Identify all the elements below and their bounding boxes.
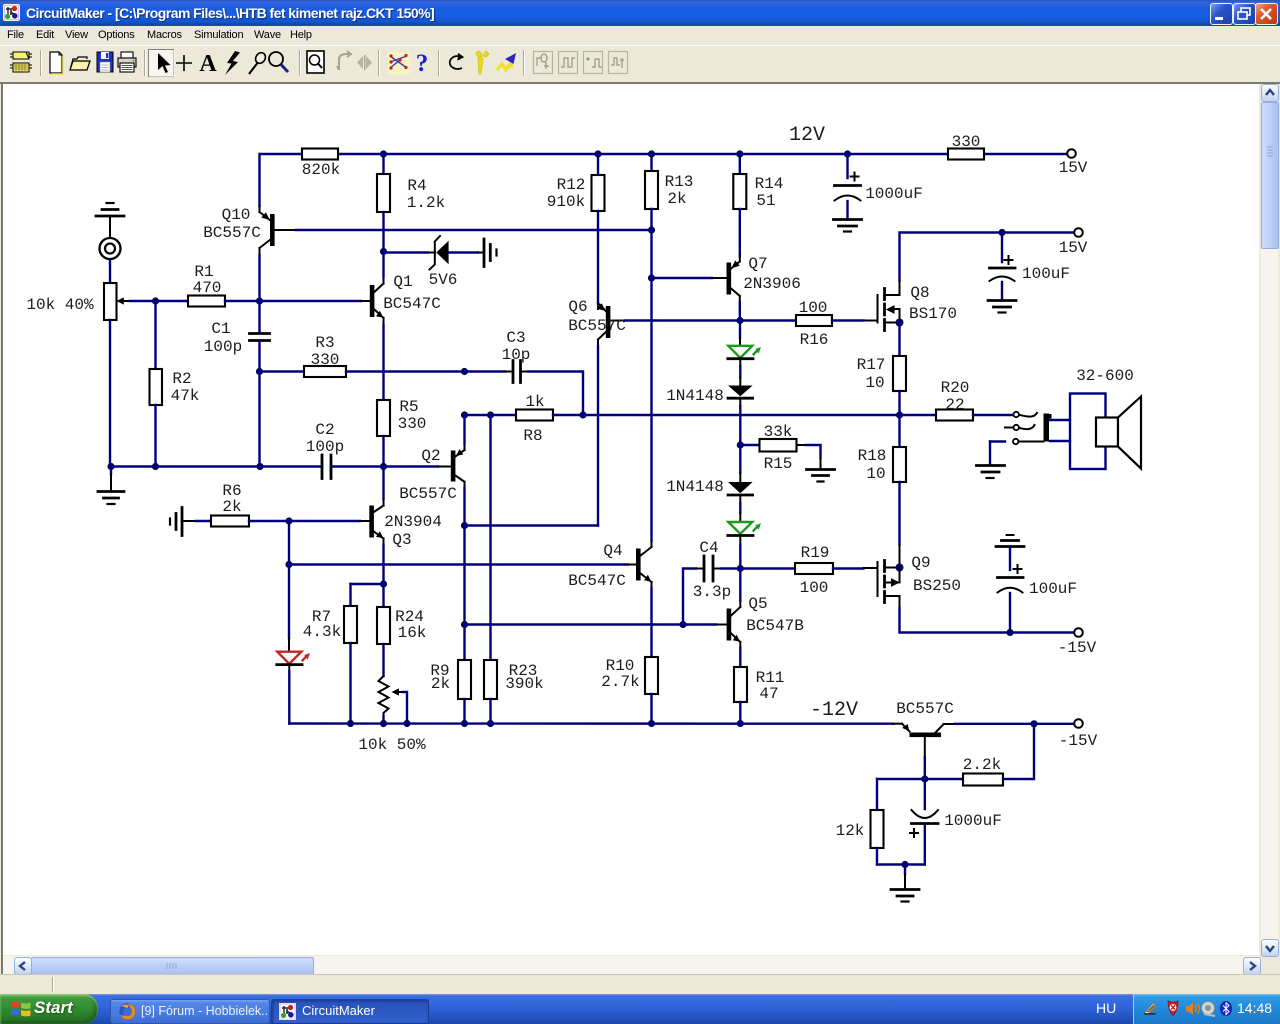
svg-text:R4: R4: [407, 177, 426, 195]
node Q3 emitter / R7 branch: [380, 580, 387, 587]
svg-text:R19: R19: [801, 544, 830, 562]
svg-text:R3: R3: [315, 334, 334, 352]
wrench yellow: [476, 51, 489, 74]
resistor R9 2k: [458, 660, 471, 699]
jack contacts: [990, 412, 1044, 464]
svg-text:10k 50%: 10k 50%: [358, 736, 426, 754]
svg-text:1k: 1k: [525, 393, 544, 411]
capacitor C1 100p: [204, 301, 270, 372]
firefox task button: [110, 999, 270, 1024]
resistor R16 100: [796, 315, 832, 326]
capacitor 1000uF top: [835, 154, 923, 219]
svg-text:Q10: Q10: [222, 206, 251, 224]
plug bar: [1044, 414, 1050, 442]
svg-text:Q2: Q2: [421, 447, 440, 465]
node R8 left / feedback: [461, 411, 468, 418]
svg-text:47: 47: [759, 685, 778, 703]
node top rail / C5: [844, 150, 851, 157]
svg-text:A: A: [199, 51, 217, 77]
mosfet Q9 BS250: [864, 545, 1075, 633]
ati icon: [1144, 1002, 1156, 1014]
transistor Q10 BC557C: [203, 206, 296, 301]
capacitor C4 3.3p: [683, 539, 740, 625]
print: [118, 52, 136, 72]
svg-text:100uF: 100uF: [1022, 265, 1070, 283]
svg-text:12V: 12V: [789, 124, 825, 147]
resistor 12k: [877, 778, 925, 780]
ground top left: [96, 203, 124, 238]
svg-text:2N3906: 2N3906: [743, 275, 801, 293]
wire plug to speaker: [1050, 419, 1070, 421]
transistor Q11 BC557C bottom: [893, 700, 1074, 779]
svg-text:BC547C: BC547C: [568, 572, 626, 590]
resistor R10 2.7k: [645, 657, 658, 694]
speaker 32-600 box: [1070, 394, 1106, 470]
node top rail / R13: [648, 150, 655, 157]
node rail / R5 / Q3 collector / Q2 base: [380, 463, 387, 470]
svg-text:16k: 16k: [398, 624, 427, 642]
node 100uF top: [998, 229, 1005, 236]
svg-text:R5: R5: [399, 398, 418, 416]
wire red led branch: [288, 521, 290, 638]
volume grey: [1202, 1002, 1215, 1015]
svg-text:Q8: Q8: [910, 284, 929, 302]
svg-text:5V6: 5V6: [429, 271, 458, 289]
svg-text:100p: 100p: [204, 338, 242, 356]
resistor R7 4.3k: [303, 584, 384, 724]
svg-text:4.3k: 4.3k: [303, 623, 341, 641]
transistor Q2 BC557C: [399, 415, 464, 660]
svg-text:Q7: Q7: [748, 255, 767, 273]
svg-text:330: 330: [311, 351, 340, 369]
svg-text:R14: R14: [755, 175, 784, 193]
node R6 / red led branch: [285, 517, 292, 524]
node rail / R7: [347, 720, 354, 727]
start button: [0, 994, 98, 1024]
wire 12V top rail: [260, 153, 302, 155]
wire Q6 collector row: [465, 524, 599, 526]
resistor R23 390k: [489, 415, 491, 660]
ground under 1000uF: [834, 220, 862, 232]
svg-text:C4: C4: [699, 539, 718, 557]
svg-text:3.3p: 3.3p: [693, 583, 731, 601]
resistor R13: [650, 154, 652, 171]
svg-text:820k: 820k: [302, 161, 340, 179]
svg-text:1N4148: 1N4148: [666, 387, 724, 405]
ground bottom right: [891, 865, 919, 902]
title bar: [0, 0, 1280, 26]
resistor R24 16k: [377, 607, 390, 644]
plus: [176, 55, 192, 71]
connector input jack: [100, 238, 121, 259]
svg-text:100: 100: [799, 299, 828, 317]
svg-text:100uF: 100uF: [1029, 580, 1077, 598]
resistor R6 2k: [196, 520, 211, 522]
svg-text:1000uF: 1000uF: [944, 812, 1002, 830]
menu bar: [0, 26, 1280, 45]
svg-text:2N3904: 2N3904: [384, 513, 442, 531]
resistor 820k: [302, 149, 338, 160]
svg-text:1N4148: 1N4148: [666, 478, 724, 496]
svg-text:33k: 33k: [764, 423, 793, 441]
ground under 100uF top: [988, 301, 1016, 313]
arrow tool pressed: [149, 50, 175, 77]
node 2.2k right riser: [1030, 720, 1037, 727]
taskbar: [0, 994, 1280, 1024]
node ground bottom right: [901, 861, 908, 868]
mosfet Q8 BS170: [864, 281, 958, 331]
node R13 / Q10 base wire: [648, 226, 655, 233]
svg-text:47k: 47k: [171, 387, 200, 405]
save: [97, 52, 113, 72]
svg-text:10p: 10p: [502, 346, 531, 364]
node top rail / R12: [594, 150, 601, 157]
svg-text:R18: R18: [858, 447, 887, 465]
wire zener: [384, 251, 429, 253]
node rail / R10: [648, 720, 655, 727]
terminal 15V second: [1074, 228, 1083, 237]
capacitor C3 10p: [465, 329, 584, 415]
speaker symbol: [1096, 418, 1118, 447]
node R1 / R2: [152, 297, 159, 304]
resistor R17: [898, 326, 900, 356]
svg-text:BC547C: BC547C: [383, 295, 441, 313]
resistor R1: [188, 296, 225, 307]
waveform tool: [497, 53, 516, 70]
ground bottom left: [98, 467, 124, 505]
svg-text:470: 470: [193, 279, 222, 297]
svg-text:330: 330: [952, 133, 981, 151]
wire Q10 emitter from rail: [258, 154, 260, 206]
resistor R11 47: [734, 667, 747, 702]
svg-text:2k: 2k: [431, 675, 450, 693]
svg-text:BC547B: BC547B: [746, 617, 804, 635]
svg-text:BS170: BS170: [909, 305, 957, 323]
svg-text:R15: R15: [764, 455, 793, 473]
svg-text:2k: 2k: [667, 190, 686, 208]
wire Q5 base row: [465, 623, 684, 625]
horizontal scrollbar: [3, 956, 1259, 974]
node rail / R23: [487, 720, 494, 727]
capacitor C2 100p: [306, 421, 451, 479]
svg-text:2.2k: 2.2k: [963, 756, 1001, 774]
resistor R4: [382, 154, 384, 174]
node Q7 collector / led chain / R16: [736, 317, 743, 324]
node top rail / R14: [736, 150, 743, 157]
wire bottom rail: [289, 722, 893, 725]
node R13 / Q7 base: [648, 274, 655, 281]
vertical scrollbar: [1261, 84, 1278, 956]
svg-text:51: 51: [756, 192, 775, 210]
open folder: [70, 57, 90, 70]
svg-text:1.2k: 1.2k: [407, 194, 445, 212]
resistor R20 22: [936, 410, 973, 421]
terminal 15V: [1067, 149, 1076, 158]
node C4 branch: [679, 621, 686, 628]
led D5 green second: [728, 513, 761, 569]
resistor R8 1k: [465, 414, 517, 416]
transistor Q6 BC557C: [568, 298, 626, 526]
node R1 / Q10 collector / C1: [256, 297, 263, 304]
node Q5 base row / R9: [461, 621, 468, 628]
wire Q4 base row: [289, 563, 628, 565]
capacitor 1000uF bottom: [910, 779, 1002, 865]
transistor Q4 BC547C: [568, 541, 651, 657]
svg-text:R8: R8: [523, 427, 542, 445]
diode D4 1N4148 second: [666, 445, 752, 513]
node top rail / R4: [380, 150, 387, 157]
shield: [1168, 1001, 1178, 1016]
svg-text:?: ?: [416, 50, 429, 77]
node rail / R9: [461, 720, 468, 727]
wire Q6 base to Q8 gate row: [625, 319, 796, 321]
svg-text:R12: R12: [557, 176, 586, 194]
svg-text:R20: R20: [941, 379, 970, 397]
node red led branch / Q4 base row: [285, 561, 292, 568]
svg-text:2.7k: 2.7k: [601, 673, 639, 691]
svg-text:Q3: Q3: [392, 531, 411, 549]
rotate: [450, 54, 463, 70]
wire Q10 base to R13: [296, 229, 652, 231]
transistor Q1 BC547C: [370, 252, 441, 326]
terminal -15V upper: [1074, 628, 1083, 637]
node R17/R18: [896, 411, 903, 418]
ground under jack: [977, 466, 1005, 479]
capacitor 100uF top right: [990, 233, 1071, 300]
node R4 / zener: [380, 248, 387, 255]
ground under R15: [807, 470, 835, 482]
svg-text:-12V: -12V: [810, 699, 858, 722]
svg-text:BS250: BS250: [913, 577, 961, 595]
resistor R15 33k: [740, 423, 820, 473]
wires check icon: [388, 52, 410, 74]
ground sideways right of zener: [484, 239, 497, 267]
svg-text:Q5: Q5: [748, 595, 767, 613]
transistor Q7 2N3906: [652, 255, 801, 321]
node C3 / R8 out: [579, 411, 586, 418]
svg-text:15V: 15V: [1059, 159, 1088, 177]
capacitor 100uF bottom right: [996, 535, 1077, 633]
wire 15V second terminal row: [900, 233, 1075, 282]
svg-text:10k 40%: 10k 40%: [26, 296, 94, 314]
svg-text:32-600: 32-600: [1076, 367, 1134, 385]
new doc: [50, 52, 63, 74]
wire bottom rail y=466: [110, 465, 322, 467]
node 100uF bottom: [1006, 629, 1013, 636]
toolbar: [0, 45, 1280, 82]
svg-text:C3: C3: [506, 329, 525, 347]
bluetooth: [1221, 1002, 1232, 1016]
wire R8 to R20 row: [553, 414, 936, 416]
svg-text:100: 100: [800, 579, 829, 597]
resistor R14: [739, 154, 741, 174]
svg-text:2k: 2k: [222, 498, 241, 516]
resistor R5: [382, 325, 384, 400]
diode D2 1N4148: [666, 378, 752, 446]
node rail / C1 branch: [256, 463, 263, 470]
svg-text:BC557C: BC557C: [568, 317, 626, 335]
potentiometer 10k 40%: [26, 260, 130, 467]
undo (grey): [339, 51, 351, 70]
circuitmaker task button (active): [271, 999, 429, 1024]
terminal -15V lower: [1074, 719, 1083, 728]
svg-text:BC557C: BC557C: [399, 485, 457, 503]
svg-text:R16: R16: [800, 331, 829, 349]
resistor R2: [154, 301, 156, 369]
svg-text:R17: R17: [857, 356, 886, 374]
lightning: [225, 51, 240, 75]
svg-text:R2: R2: [172, 370, 191, 388]
node R3 / C3 / feedback: [461, 368, 468, 375]
diode D3 zener 5V6: [429, 236, 483, 289]
svg-text:-15V: -15V: [1059, 732, 1098, 750]
speaker orange: [1186, 1003, 1193, 1016]
svg-text:Q9: Q9: [911, 554, 930, 572]
resistor R19 100: [740, 567, 795, 569]
svg-text:910k: 910k: [547, 193, 585, 211]
node C1 / R3: [256, 368, 263, 375]
split arrows grey: [357, 55, 372, 70]
potentiometer 10k 50%: [358, 676, 426, 754]
svg-text:100p: 100p: [306, 438, 344, 456]
node rail / ground: [107, 463, 114, 470]
led D6 red: [277, 638, 310, 724]
svg-text:Q4: Q4: [603, 542, 622, 560]
transistor Q3 2N3904: [369, 499, 442, 607]
svg-text:12k: 12k: [836, 822, 865, 840]
svg-text:390k: 390k: [505, 675, 543, 693]
zoom doc: [307, 51, 324, 73]
svg-text:BC557C: BC557C: [896, 700, 954, 718]
system tray: [1133, 994, 1280, 1024]
resistor R3: [260, 370, 305, 372]
node Q11 base / 12k / 2.2k / cap: [921, 775, 928, 782]
node rail / R2: [152, 463, 159, 470]
node led chain / R15: [737, 441, 744, 448]
svg-text:Q6: Q6: [568, 298, 587, 316]
resistor R18: [898, 415, 900, 447]
svg-text:10: 10: [865, 374, 884, 392]
svg-text:10: 10: [866, 465, 885, 483]
node rail / pot: [380, 720, 387, 727]
magnifier: [269, 52, 288, 72]
svg-text:C2: C2: [315, 421, 334, 439]
4 disabled wave buttons: [534, 52, 628, 74]
svg-text:R13: R13: [665, 173, 694, 191]
chip browse icon: [10, 52, 32, 72]
wire R1 row: [130, 300, 188, 302]
led D1 green: [728, 322, 761, 378]
resistor 330 top right: [948, 149, 984, 160]
svg-text:15V: 15V: [1059, 239, 1088, 257]
node Q2 collector / Q6 collector wire: [461, 522, 468, 529]
resistor R12: [597, 154, 599, 175]
svg-text:C1: C1: [211, 320, 230, 338]
svg-text:-15V: -15V: [1058, 639, 1097, 657]
node rail / R11: [737, 720, 744, 727]
resistor 2.2k: [925, 778, 963, 780]
svg-text:Q1: Q1: [393, 273, 412, 291]
probe wand: [249, 51, 267, 74]
node R23 top: [487, 411, 494, 418]
svg-text:BC557C: BC557C: [203, 224, 261, 242]
node rail / pot wiper: [403, 720, 410, 727]
svg-text:22: 22: [945, 396, 964, 414]
transistor Q5 BC547B: [716, 569, 804, 668]
svg-text:1000uF: 1000uF: [865, 185, 923, 203]
status bar: [0, 974, 1280, 995]
node C4 / R19 / Q5 collector: [737, 565, 744, 572]
svg-text:330: 330: [398, 415, 427, 433]
ground sideways at R6: [170, 508, 196, 536]
